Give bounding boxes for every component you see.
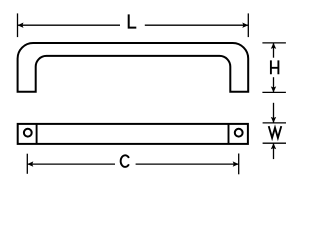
dimension W: bottom extension line bbox=[263, 142, 286, 144]
dimension L: left extension line bbox=[17, 13, 19, 37]
label L bbox=[129, 14, 137, 27]
handle front view outline bbox=[18, 43, 249, 92]
dimension H: top shaft bbox=[273, 43, 275, 58]
dimension H: bottom extension line bbox=[262, 91, 286, 93]
dimension L: line right segment bbox=[145, 24, 249, 26]
dimension W: top shaft bbox=[273, 103, 275, 123]
dimension L: left arrowhead bbox=[18, 23, 24, 28]
plan view left divider bbox=[36, 124, 38, 144]
dimension W: bottom shaft bbox=[273, 143, 275, 159]
plan view right divider bbox=[228, 124, 230, 144]
right screw hole bbox=[235, 129, 243, 137]
dimension L: right extension line bbox=[247, 13, 249, 37]
dimension C: line left segment bbox=[27, 163, 115, 165]
dimension C: left arrowhead bbox=[27, 161, 33, 166]
dimension W: down arrowhead bbox=[271, 117, 276, 123]
dimension C: right extension line bbox=[238, 154, 240, 175]
dimension L: right arrowhead bbox=[242, 23, 248, 28]
label W bbox=[269, 126, 282, 138]
dimension W: up arrowhead bbox=[271, 143, 276, 149]
dimension C: left extension line bbox=[26, 154, 28, 174]
dimension L: line left segment bbox=[18, 24, 121, 26]
left screw hole bbox=[24, 129, 32, 137]
dimension W: top extension line bbox=[263, 122, 286, 124]
dimension H: bottom shaft bbox=[273, 77, 275, 92]
dimension H: up arrowhead bbox=[271, 43, 276, 49]
dimension C: line right segment bbox=[136, 163, 239, 165]
handle plan view body bbox=[18, 124, 248, 144]
label H bbox=[271, 60, 279, 74]
label C bbox=[121, 155, 129, 167]
dimension H: down arrowhead bbox=[271, 86, 276, 92]
dimension C: right arrowhead bbox=[233, 161, 239, 166]
dimension H: top extension line bbox=[262, 42, 286, 44]
